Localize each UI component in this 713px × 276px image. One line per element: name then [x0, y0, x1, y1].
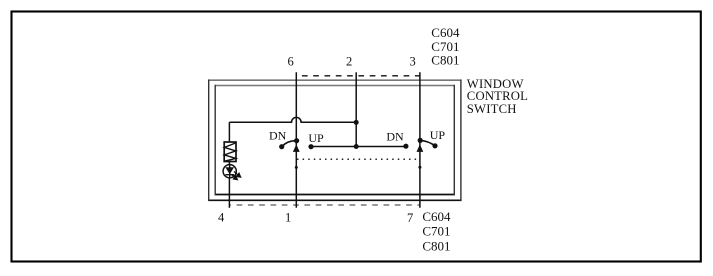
- svg-text:C801: C801: [422, 238, 450, 253]
- svg-text:UP: UP: [308, 131, 324, 145]
- svg-text:UP: UP: [430, 128, 446, 142]
- svg-text:7: 7: [407, 211, 413, 225]
- svg-text:4: 4: [218, 211, 225, 225]
- svg-text:6: 6: [288, 54, 294, 68]
- svg-text:C604: C604: [422, 209, 451, 224]
- svg-text:C701: C701: [422, 224, 450, 239]
- svg-text:2: 2: [346, 54, 352, 68]
- svg-text:C801: C801: [431, 52, 459, 67]
- svg-text:DN: DN: [269, 129, 287, 143]
- svg-text:1: 1: [285, 211, 291, 225]
- svg-text:SWITCH: SWITCH: [467, 102, 517, 116]
- svg-text:3: 3: [410, 54, 416, 68]
- svg-text:DN: DN: [386, 129, 404, 143]
